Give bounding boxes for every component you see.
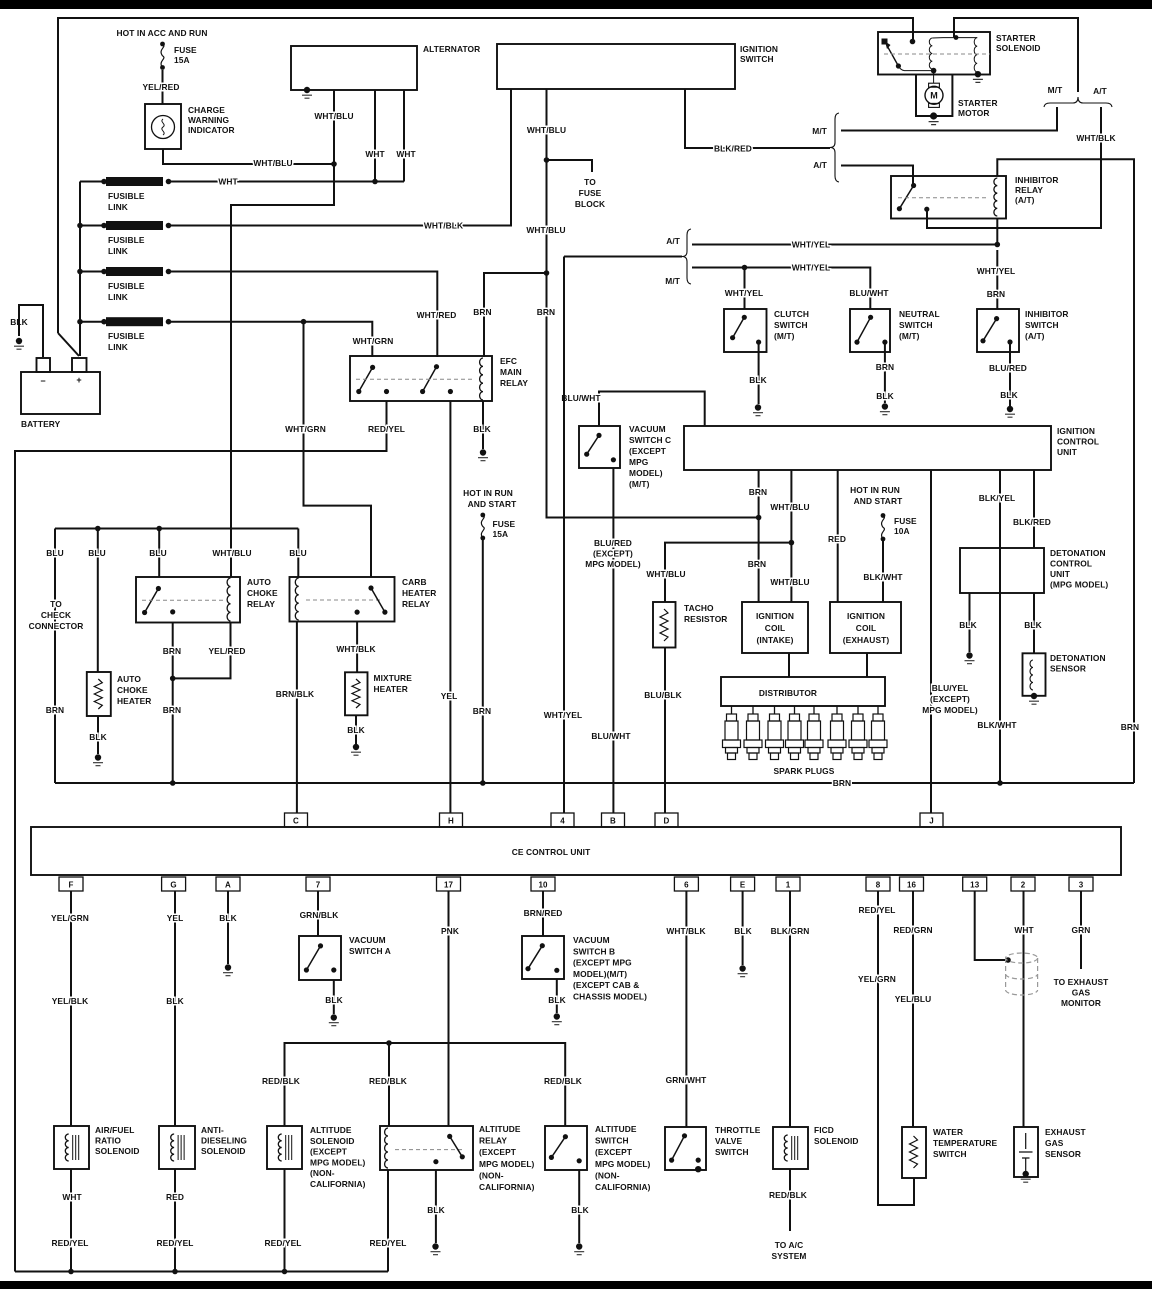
svg-text:WHT/YEL: WHT/YEL (792, 263, 830, 273)
wire fusible link 4 WHT/GRN to EFC main relay (169, 322, 373, 357)
wire ICU BLK/RED to detonation control unit (1033, 470, 1035, 548)
brace A/T-M/T mid (682, 229, 691, 284)
svg-text:6: 6 (684, 881, 689, 890)
wire CE 16 RED/GRN-YEL/BLU to water temperature switch (912, 891, 914, 1127)
svg-text:(EXCEPT: (EXCEPT (479, 1147, 517, 1157)
wire vacuum switch A BLK to ground (333, 980, 335, 1014)
pin G CE control unit (162, 877, 186, 891)
svg-text:HOT IN RUN: HOT IN RUN (850, 485, 900, 495)
svg-text:WHT/BLU: WHT/BLU (212, 548, 251, 558)
svg-text:BRN: BRN (537, 307, 555, 317)
junction clutch branch (742, 265, 748, 271)
svg-text:(EXCEPT): (EXCEPT) (930, 694, 970, 704)
wire coil exhaust to distributor (866, 653, 868, 677)
svg-text:WHT/BLK: WHT/BLK (424, 221, 463, 231)
svg-text:WHT/BLU: WHT/BLU (253, 158, 292, 168)
pin H CE control unit (440, 813, 463, 827)
wire tacho BLU/BLK to CE control unit D (664, 648, 666, 814)
wire det unit BLK to ground (969, 593, 971, 652)
wire fusible link 1 WHT to alternator pins (169, 181, 405, 183)
spark plugs (731, 706, 733, 714)
pin D CE control unit (655, 813, 678, 827)
ground starter motor (930, 112, 937, 119)
pin 8 CE control unit (866, 877, 890, 891)
ground vacuum switch A (331, 1014, 337, 1020)
wire mixture heater BLK to ground (355, 715, 357, 744)
junction bus altitude solenoid (282, 1269, 288, 1275)
altitude relay (380, 1126, 473, 1170)
wire ICU RED to ignition coil exhaust (837, 470, 839, 602)
svg-text:AUTO: AUTO (247, 577, 271, 587)
wire BLU to carb heater relay coil (297, 529, 299, 578)
svg-text:BLK: BLK (1024, 620, 1042, 630)
svg-text:WARNING: WARNING (188, 115, 229, 125)
junction 13 at connector (1005, 957, 1011, 963)
anti-dieseling solenoid (159, 1126, 195, 1169)
pin inhibitor relay switch out (924, 207, 929, 212)
svg-text:BRN/BLK: BRN/BLK (276, 689, 314, 699)
pin 7 CE control unit (306, 877, 330, 891)
svg-text:WHT/BLU: WHT/BLU (314, 111, 353, 121)
svg-text:15A: 15A (493, 529, 509, 539)
svg-text:A/T: A/T (666, 236, 681, 246)
svg-text:VACUUM: VACUUM (573, 935, 610, 945)
wire det unit BLK to detonation sensor (1033, 593, 1035, 653)
svg-text:AND START: AND START (468, 499, 517, 509)
svg-text:(NON-: (NON- (479, 1170, 504, 1180)
svg-text:(EXCEPT: (EXCEPT (310, 1147, 348, 1157)
svg-text:CE CONTROL UNIT: CE CONTROL UNIT (512, 847, 591, 857)
svg-text:CONTROL: CONTROL (1050, 559, 1092, 569)
svg-text:ALTITUDE: ALTITUDE (479, 1124, 521, 1134)
svg-text:3: 3 (1079, 881, 1084, 890)
distributor (721, 677, 885, 706)
wire carb heater relay WHT/BLK to mixture heater (356, 622, 358, 673)
throttle valve switch (665, 1127, 706, 1170)
clutch switch (M/T) (724, 309, 767, 352)
svg-text:TEMPERATURE: TEMPERATURE (933, 1138, 998, 1148)
coil EFC relay (480, 358, 483, 400)
wire BLU distribution bus (55, 528, 298, 530)
wire CE 2 WHT to exhaust gas sensor (1023, 891, 1025, 1127)
junction WHT/GRN branch (301, 319, 307, 325)
svg-text:WHT/BLU: WHT/BLU (770, 502, 809, 512)
svg-text:(NON-: (NON- (595, 1170, 620, 1180)
svg-text:RELAY: RELAY (500, 378, 528, 388)
svg-text:10: 10 (538, 881, 548, 890)
coil 1 starter solenoid (929, 38, 932, 69)
FICD solenoid (773, 1127, 808, 1169)
carb heater relay (290, 577, 395, 622)
svg-text:YEL/BLU: YEL/BLU (895, 994, 932, 1004)
svg-text:SOLENOID: SOLENOID (996, 43, 1041, 53)
wire vacuum switch C BLU/RED to CE control unit B (612, 468, 614, 813)
svg-text:SPARK PLUGS: SPARK PLUGS (774, 766, 835, 776)
svg-text:LINK: LINK (108, 202, 128, 212)
svg-text:THROTTLE: THROTTLE (715, 1125, 761, 1135)
svg-text:WHT/YEL: WHT/YEL (792, 240, 830, 250)
svg-text:BLU: BLU (88, 548, 106, 558)
svg-text:RED/YEL: RED/YEL (859, 905, 896, 915)
wire BLU to auto choke heater (97, 529, 99, 673)
ground alternator (304, 87, 310, 93)
svg-text:SENSOR: SENSOR (1045, 1149, 1081, 1159)
wire A/T to inhibitor relay switch (841, 166, 913, 187)
svg-text:BLK/YEL: BLK/YEL (979, 493, 1016, 503)
svg-text:10A: 10A (894, 526, 910, 536)
dashed link EFC relay (356, 378, 474, 380)
starter motor (916, 75, 952, 117)
svg-text:TACHO: TACHO (684, 603, 714, 613)
svg-text:(NON-: (NON- (310, 1168, 335, 1178)
pin E CE control unit (731, 877, 755, 891)
wire vacuum switch B BLK to ground (556, 979, 558, 1013)
svg-text:2: 2 (1021, 881, 1026, 890)
svg-text:SWITCH: SWITCH (933, 1149, 967, 1159)
svg-text:RELAY: RELAY (247, 599, 275, 609)
wire fuse to charge warning indicator, YEL/RED (162, 70, 164, 104)
svg-text:UNIT: UNIT (1050, 569, 1071, 579)
ground A (225, 964, 231, 970)
wire to fuse block (547, 160, 593, 172)
svg-text:BRN: BRN (1121, 722, 1139, 732)
wire air/fuel solenoid WHT-RED/YEL to bus (70, 1169, 72, 1272)
wire battery feed diagonal to + terminal (58, 333, 79, 356)
wire clutch switch BLK to ground (758, 342, 760, 404)
auto choke relay (136, 577, 240, 623)
svg-text:CHOKE: CHOKE (247, 588, 278, 598)
wire main battery feed (left border and top) (58, 18, 913, 333)
pin EFC relay out 1 (384, 389, 389, 394)
svg-text:BLK: BLK (427, 1205, 445, 1215)
svg-text:SWITCH: SWITCH (899, 320, 933, 330)
svg-text:STARTER: STARTER (958, 98, 998, 108)
svg-text:BRN: BRN (473, 706, 491, 716)
svg-text:VACUUM: VACUUM (349, 935, 386, 945)
svg-text:(EXCEPT: (EXCEPT (629, 446, 667, 456)
svg-text:VACUUM: VACUUM (629, 424, 666, 434)
svg-text:WHT/YEL: WHT/YEL (977, 266, 1015, 276)
connector to exhaust gas monitor (dashed cylinder) (1006, 953, 1038, 995)
wire ICU to CE control unit J, BLU/YEL (930, 470, 932, 813)
pin A CE control unit (216, 877, 240, 891)
svg-text:CLUTCH: CLUTCH (774, 309, 809, 319)
svg-text:BLK: BLK (876, 391, 894, 401)
svg-text:WHT: WHT (62, 1192, 82, 1202)
svg-text:HOT IN RUN: HOT IN RUN (463, 488, 513, 498)
svg-text:CALIFORNIA): CALIFORNIA) (479, 1182, 535, 1192)
svg-text:BLK: BLK (89, 732, 107, 742)
svg-text:WATER: WATER (933, 1127, 963, 1137)
wire RED/BLK distribution to altitude components (285, 1043, 566, 1126)
svg-text:AUTO: AUTO (117, 674, 141, 684)
pin 4 CE control unit (551, 813, 574, 827)
svg-text:BRN: BRN (163, 646, 181, 656)
wire charge indicator to alternator WHT/BLU (163, 149, 334, 164)
svg-text:(EXHAUST): (EXHAUST) (843, 635, 890, 645)
svg-text:A/T: A/T (1093, 86, 1108, 96)
ground mixture heater (353, 744, 359, 750)
wire CE control unit 4 WHT/YEL up to A/T-M/T brace (563, 257, 565, 814)
svg-text:INHIBITOR: INHIBITOR (1025, 309, 1069, 319)
wire ICU WHT/BLU to ignition coil intake (790, 470, 792, 602)
junction BRN (756, 515, 762, 521)
wire inhibitor relay coil to right margin, WHT/BLK-BRN (997, 159, 1134, 783)
svg-text:7: 7 (316, 881, 321, 890)
svg-text:BLK: BLK (1000, 390, 1018, 400)
wire altitude relay RED/YEL to bus end (387, 1170, 389, 1272)
wire altitude solenoid RED/YEL to bus (284, 1169, 286, 1272)
wire A/T WHT/BLK to inhibitor relay (927, 107, 1101, 228)
svg-text:MODEL)(M/T): MODEL)(M/T) (573, 969, 627, 979)
wire BRN main to ignition coil junction (547, 273, 759, 518)
wire ignition switch BLK/RED to M/T-A/T brace (685, 89, 830, 148)
svg-text:RED/YEL: RED/YEL (265, 1238, 302, 1248)
svg-text:IGNITION: IGNITION (847, 611, 885, 621)
wire auto choke relay BRN to main bus (172, 623, 174, 784)
svg-text:INHIBITOR: INHIBITOR (1015, 175, 1059, 185)
svg-text:FUSE: FUSE (174, 45, 197, 55)
mixture heater (345, 672, 368, 715)
svg-text:BLU/WHT: BLU/WHT (561, 393, 601, 403)
svg-text:15A: 15A (174, 55, 190, 65)
svg-text:MPG MODEL): MPG MODEL) (310, 1157, 366, 1167)
wire CE 3 GRN to exhaust gas monitor (1080, 891, 1082, 969)
svg-text:YEL/GRN: YEL/GRN (51, 913, 89, 923)
svg-text:F: F (69, 881, 74, 890)
svg-text:C: C (293, 817, 299, 826)
svg-text:SOLENOID: SOLENOID (95, 1146, 140, 1156)
vacuum switch A (299, 936, 341, 980)
wire auto choke relay coil YEL/RED (173, 623, 231, 679)
wire inhibitor relay coil to WHT/YEL node (996, 218, 998, 245)
svg-text:MAIN: MAIN (500, 367, 522, 377)
svg-text:BRN: BRN (163, 705, 181, 715)
svg-text:BLU/BLK: BLU/BLK (644, 690, 681, 700)
wire altitude switch BLK to ground (578, 1170, 580, 1243)
pin B CE control unit (602, 813, 625, 827)
ignition coil (exhaust) (830, 602, 901, 653)
wire CE 1 BLK/GRN to FICD solenoid (789, 891, 791, 1127)
svg-text:WHT/BLK: WHT/BLK (666, 926, 705, 936)
svg-text:COIL: COIL (856, 623, 876, 633)
water temperature switch (902, 1127, 926, 1178)
svg-text:BLK/WHT: BLK/WHT (863, 572, 903, 582)
svg-text:TO: TO (584, 177, 596, 187)
svg-text:BLK: BLK (749, 375, 767, 385)
svg-text:WHT/BLU: WHT/BLU (646, 569, 685, 579)
wire bottom RED/YEL bus (15, 1271, 388, 1273)
svg-text:BLK: BLK (571, 1205, 589, 1215)
svg-text:J: J (929, 817, 934, 826)
svg-text:A: A (225, 881, 231, 890)
svg-text:SWITCH: SWITCH (774, 320, 808, 330)
svg-text:STARTER: STARTER (996, 33, 1036, 43)
junction bus fuse BRN (480, 780, 486, 786)
svg-text:TO: TO (50, 599, 62, 609)
svg-text:BLU/WHT: BLU/WHT (591, 731, 631, 741)
svg-text:BLK: BLK (734, 926, 752, 936)
wire CE 6 WHT/BLK-GRN/WHT to throttle valve switch (685, 891, 687, 1127)
wire BLU to check connector (54, 529, 56, 784)
wire inhibitor switch BLU/RED-BLK to ground (1009, 342, 1011, 406)
pin 13 CE control unit (963, 877, 987, 891)
svg-text:LINK: LINK (108, 246, 128, 256)
coil carb heater relay (295, 578, 298, 620)
pin 16 CE control unit (900, 877, 924, 891)
CE control unit (31, 827, 1121, 875)
wire fusible link 4 to bus (80, 321, 104, 323)
svg-text:YEL/RED: YEL/RED (209, 646, 246, 656)
svg-text:SWITCH: SWITCH (1025, 320, 1059, 330)
junction WHT (372, 179, 378, 185)
charge warning indicator (145, 104, 181, 149)
svg-text:RED/YEL: RED/YEL (370, 1238, 407, 1248)
svg-text:BLK/RED: BLK/RED (714, 144, 752, 154)
svg-text:RELAY: RELAY (1015, 185, 1043, 195)
svg-text:WHT: WHT (365, 149, 385, 159)
svg-text:(EXCEPT: (EXCEPT (595, 1147, 633, 1157)
svg-text:BLK: BLK (548, 995, 566, 1005)
wire BRN branch to EFC relay coil (484, 273, 547, 357)
svg-text:MPG: MPG (629, 457, 648, 467)
fuse 15A (480, 513, 485, 518)
svg-text:RED: RED (166, 1192, 184, 1202)
svg-text:WHT/BLK: WHT/BLK (1076, 133, 1115, 143)
wire CE 13 to exhaust gas monitor connector (975, 891, 1005, 960)
svg-text:16: 16 (907, 881, 917, 890)
svg-text:BLK: BLK (219, 913, 237, 923)
svg-text:−: − (40, 376, 45, 386)
svg-text:WHT/GRN: WHT/GRN (353, 336, 394, 346)
ground altitude switch (576, 1243, 582, 1249)
wire M/T to starter brace (841, 107, 1057, 131)
svg-text:MONITOR: MONITOR (1061, 998, 1101, 1008)
svg-text:(M/T): (M/T) (774, 331, 795, 341)
wire starter solenoid to A/T-M/T brace, top right (954, 18, 1078, 92)
wire M/T WHT/YEL to clutch and neutral switches (692, 268, 870, 310)
svg-text:RED/GRN: RED/GRN (893, 925, 932, 935)
wire alternator WHT pin 1 (374, 90, 376, 182)
svg-text:WHT: WHT (396, 149, 416, 159)
svg-text:(EXCEPT MPG: (EXCEPT MPG (573, 958, 632, 968)
svg-text:SOLENOID: SOLENOID (201, 1146, 246, 1156)
svg-text:SWITCH: SWITCH (595, 1136, 629, 1146)
svg-text:WHT/YEL: WHT/YEL (725, 288, 763, 298)
svg-text:B: B (610, 817, 616, 826)
brace M/T-A/T under starter (1044, 97, 1112, 107)
inhibitor relay (A/T) (891, 176, 1006, 219)
junction BLU choke relay (156, 526, 162, 532)
battery (21, 372, 100, 414)
svg-text:DETONATION: DETONATION (1050, 653, 1106, 663)
auto choke heater (87, 672, 111, 716)
pin 10 CE control unit (531, 877, 555, 891)
neutral switch (M/T) (850, 309, 890, 352)
wire WHT/YEL to clutch switch (744, 268, 746, 310)
EFC main relay (350, 356, 492, 401)
svg-text:BLU/RED: BLU/RED (594, 538, 632, 548)
altitude switch (545, 1126, 587, 1170)
svg-text:A/T: A/T (813, 160, 828, 170)
svg-text:PNK: PNK (441, 926, 459, 936)
svg-text:(A/T): (A/T) (1015, 195, 1035, 205)
svg-text:(A/T): (A/T) (1025, 331, 1045, 341)
detonation control unit (MPG model) (960, 548, 1044, 593)
svg-text:M/T: M/T (812, 126, 828, 136)
svg-text:BLK: BLK (347, 725, 365, 735)
svg-text:RED/BLK: RED/BLK (262, 1076, 300, 1086)
svg-text:AIR/FUEL: AIR/FUEL (95, 1125, 134, 1135)
junction BRN YEL/RED (170, 676, 176, 682)
svg-text:BLOCK: BLOCK (575, 199, 605, 209)
svg-text:BLU: BLU (46, 548, 64, 558)
wire fusible link 2 WHT/BLK to ignition switch (169, 89, 512, 226)
svg-text:GRN: GRN (1072, 925, 1091, 935)
svg-text:RED/YEL: RED/YEL (368, 424, 405, 434)
wire CE G YEL to anti-dieseling solenoid (174, 891, 176, 1126)
inhibitor switch (A/T) (977, 309, 1019, 352)
junction BLU choke heater (95, 526, 101, 532)
svg-text:BRN: BRN (46, 705, 64, 715)
svg-text:CALIFORNIA): CALIFORNIA) (310, 1179, 366, 1189)
wire neutral switch BRN-BLK to ground (884, 342, 886, 403)
wire carb heater relay BRN/BLK to CE control unit C (296, 622, 298, 814)
svg-text:M/T: M/T (1048, 85, 1064, 95)
svg-text:H: H (448, 817, 454, 826)
tacho resistor (653, 602, 676, 648)
svg-text:MOTOR: MOTOR (958, 108, 990, 118)
wire alternator WHT/BLU output with jog (231, 90, 334, 577)
svg-text:ALTERNATOR: ALTERNATOR (423, 44, 480, 54)
svg-text:BRN: BRN (833, 778, 851, 788)
ground starter solenoid coil (975, 71, 981, 77)
wire CE 7 GRN/BLK to vacuum switch A (317, 891, 319, 936)
svg-text:BLK: BLK (166, 996, 184, 1006)
wire left fusible-link bus to battery + (79, 182, 81, 357)
ground exhaust gas sensor (1022, 1171, 1028, 1177)
wire tacho resistor branch (665, 543, 791, 602)
svg-text:BRN: BRN (987, 289, 1005, 299)
junction WHT/BLU-BRN split (544, 270, 550, 276)
svg-text:FUSE: FUSE (894, 516, 917, 526)
dashed link inhibitor relay (898, 197, 988, 199)
wire fusible link 3 to bus (80, 271, 104, 273)
svg-text:BLU: BLU (149, 548, 167, 558)
fusible link 4 (106, 317, 163, 326)
svg-text:BLU/YEL: BLU/YEL (932, 683, 969, 693)
svg-text:TO A/C: TO A/C (775, 1240, 804, 1250)
wire feed to brace from ignition area (564, 256, 682, 258)
svg-text:FUSIBLE: FUSIBLE (108, 331, 145, 341)
wire CE A BLK to ground (227, 891, 229, 964)
wire altitude relay BLK to ground (435, 1170, 437, 1243)
ground EFC relay (480, 449, 486, 455)
wire CE F YEL/GRN to air/fuel ratio solenoid (70, 891, 72, 1126)
svg-text:CHASSIS MODEL): CHASSIS MODEL) (573, 992, 647, 1002)
svg-text:YEL/RED: YEL/RED (143, 82, 180, 92)
junction bus auto-choke (170, 780, 176, 786)
junction bus anti-dieseling (172, 1269, 178, 1275)
svg-text:BRN: BRN (749, 487, 767, 497)
svg-text:M/T: M/T (665, 276, 681, 286)
svg-text:LINK: LINK (108, 292, 128, 302)
svg-text:BLK/GRN: BLK/GRN (771, 926, 810, 936)
svg-text:GAS: GAS (1072, 988, 1091, 998)
svg-text:HEATER: HEATER (402, 588, 436, 598)
svg-text:RESISTOR: RESISTOR (684, 614, 727, 624)
junction bus-link2 (77, 223, 83, 229)
